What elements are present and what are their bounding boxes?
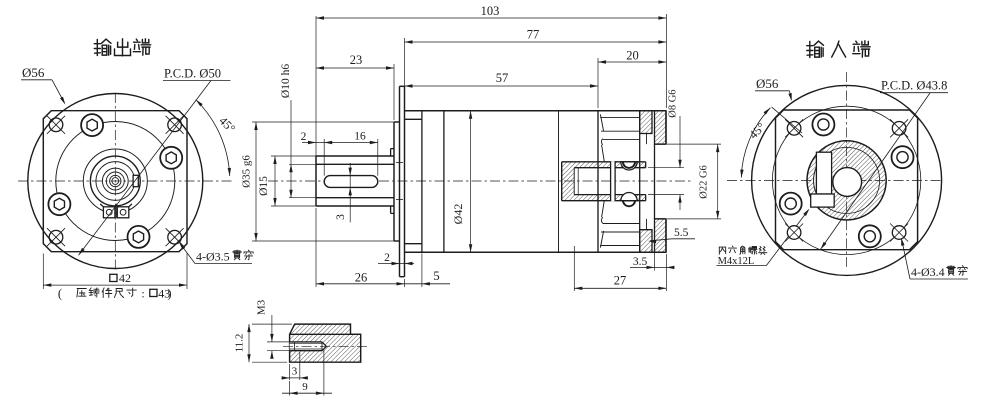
right view carrier screws xyxy=(780,114,914,248)
dim 26 and 5 xyxy=(316,208,450,287)
dim 57 xyxy=(405,71,599,88)
dim 9 detail xyxy=(282,350,332,396)
dimension square 42 xyxy=(43,254,187,290)
svg-text:5.5: 5.5 xyxy=(674,227,689,239)
dim 3.5 xyxy=(630,221,674,271)
dim dia15 xyxy=(258,156,316,206)
dim dia22 G6 xyxy=(667,144,721,219)
left view center shaft circles xyxy=(83,149,147,213)
right view pcd diagonal xyxy=(821,93,931,249)
svg-text:16: 16 xyxy=(354,131,366,143)
right view centerlines xyxy=(727,72,941,268)
svg-text:3: 3 xyxy=(292,366,298,378)
coupler bore dia8 xyxy=(833,168,862,197)
note die-cast size 43 xyxy=(58,286,172,300)
svg-text:Ø15: Ø15 xyxy=(258,176,270,196)
M4 screw dome bottom xyxy=(621,192,637,206)
detail centerline xyxy=(283,345,368,347)
left view 45 deg arc dimension xyxy=(196,100,239,176)
dim 27 xyxy=(574,246,666,291)
svg-text:2: 2 xyxy=(384,252,390,264)
svg-text:20: 20 xyxy=(626,48,639,62)
svg-text:2: 2 xyxy=(301,131,307,143)
title input end 输入端 xyxy=(807,41,870,58)
svg-text:Ø10 h6: Ø10 h6 xyxy=(280,64,292,98)
right view 45 deg arc xyxy=(740,108,770,178)
svg-text:P.C.D. Ø43.8: P.C.D. Ø43.8 xyxy=(881,79,947,93)
svg-text:Ø22 G6: Ø22 G6 xyxy=(699,165,710,199)
right view square flange xyxy=(776,110,918,250)
adapter right face and recess xyxy=(640,111,666,253)
svg-text:4-Ø3.5: 4-Ø3.5 xyxy=(196,250,230,264)
svg-text:Ø35 g6: Ø35 g6 xyxy=(241,155,253,188)
svg-text:26: 26 xyxy=(355,271,368,285)
dim 3 keyway width xyxy=(335,163,352,222)
planet gear bottom xyxy=(600,200,640,247)
gearbox body dia 42 xyxy=(405,111,667,253)
adapter hatched section top xyxy=(640,111,666,144)
svg-text:Ø56: Ø56 xyxy=(22,65,45,80)
right view corner holes 4-x3.4 xyxy=(785,119,908,241)
dim 11.2 xyxy=(234,324,293,362)
svg-text:M3: M3 xyxy=(256,299,268,315)
dim 3 detail xyxy=(282,352,308,380)
svg-text:3.5: 3.5 xyxy=(633,256,648,268)
left view square flange body xyxy=(43,111,187,252)
right view outer circle dia56 xyxy=(752,85,942,275)
left view socket screws xyxy=(48,114,182,248)
adapter hatched section bottom xyxy=(640,219,666,252)
left view corner holes 4-x3.5 xyxy=(47,116,184,246)
left view centerlines xyxy=(18,93,233,270)
coupler clamp slit xyxy=(611,161,616,201)
svg-text:27: 27 xyxy=(614,274,627,288)
label PCD 43.8 xyxy=(880,79,948,93)
svg-text:77: 77 xyxy=(527,28,540,42)
flange boss dia 35 xyxy=(394,122,400,241)
label 5.5 xyxy=(648,227,695,243)
dim M3 xyxy=(256,299,291,358)
left view boss circle xyxy=(56,122,175,241)
M4 screw dome top xyxy=(621,162,637,170)
svg-text:11.2: 11.2 xyxy=(234,334,246,353)
left view pcd diagonal leader xyxy=(79,81,212,256)
svg-text:Ø56: Ø56 xyxy=(756,76,779,91)
svg-text:4-Ø3.4: 4-Ø3.4 xyxy=(911,265,945,279)
dim 20 xyxy=(598,48,666,108)
left view bottom detail bracket xyxy=(100,204,132,219)
label PCD 50 xyxy=(163,67,231,81)
right view pcd circle 43.8 xyxy=(772,106,920,254)
input coupler hatched walls xyxy=(562,162,646,201)
dim dia10 h6 xyxy=(280,64,293,198)
dim 23 xyxy=(316,53,394,120)
coupler clamp slot front xyxy=(816,152,831,194)
label 4-x3.4 through xyxy=(901,238,968,279)
left view keyway xyxy=(133,175,138,186)
svg-text:Ø8 G6: Ø8 G6 xyxy=(668,89,679,117)
svg-text:3: 3 xyxy=(335,214,347,220)
dim 77 xyxy=(405,28,667,109)
label diameter 56 left xyxy=(21,65,65,105)
flange boss dia 19 xyxy=(391,149,394,214)
title output end 输出端 xyxy=(94,39,150,56)
M4 screw pocket front xyxy=(811,194,835,207)
svg-text:57: 57 xyxy=(496,71,509,85)
dim 103 xyxy=(316,4,666,156)
svg-text::: : xyxy=(141,286,144,300)
planet gear top xyxy=(600,114,640,161)
svg-text:P.C.D. Ø50: P.C.D. Ø50 xyxy=(164,67,221,81)
output shaft xyxy=(289,156,394,206)
slot side relief arc xyxy=(814,167,817,194)
label 4-x3.5 through holes xyxy=(179,242,253,263)
input coupler face hatched xyxy=(807,141,886,220)
shaft section detail body xyxy=(290,324,361,362)
svg-text:Ø42: Ø42 xyxy=(451,204,465,225)
right view 45 deg nw segment xyxy=(772,107,803,133)
middle view centerline xyxy=(268,180,692,182)
svg-text:103: 103 xyxy=(481,4,500,18)
svg-text:23: 23 xyxy=(350,53,363,67)
M3 tapped hole xyxy=(290,342,327,351)
label diameter 56 right xyxy=(755,76,792,101)
dim dia35 g6 xyxy=(241,122,395,241)
dim 2 and 16 keyway xyxy=(301,131,378,176)
shaft keyway slot xyxy=(324,176,378,188)
dim 2 flange xyxy=(378,252,414,265)
svg-text:(: ( xyxy=(58,287,62,301)
note hex socket screw M4x12L xyxy=(717,209,810,267)
svg-text:42: 42 xyxy=(119,271,131,285)
dim dia8 G6 xyxy=(648,89,684,210)
svg-text:9: 9 xyxy=(302,381,308,393)
svg-text:): ) xyxy=(167,287,171,301)
flange plate dia 56 xyxy=(396,86,405,276)
dim dia42 xyxy=(451,111,472,253)
left view outer circle xyxy=(28,94,203,269)
svg-text:5: 5 xyxy=(433,269,439,283)
